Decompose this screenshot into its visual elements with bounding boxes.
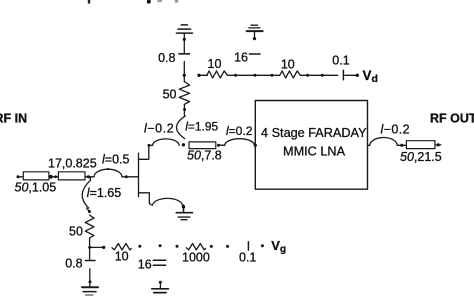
svg-text:1000: 1000 xyxy=(182,250,210,264)
svg-text:17,0.825: 17,0.825 xyxy=(48,156,97,170)
svg-text:50,21.5: 50,21.5 xyxy=(400,150,442,164)
svg-text:50,7.8: 50,7.8 xyxy=(187,149,222,163)
svg-text:l−0.2: l−0.2 xyxy=(144,121,174,135)
svg-text:0.1: 0.1 xyxy=(332,54,349,68)
svg-text:0.8: 0.8 xyxy=(158,51,175,65)
svg-text:0.1: 0.1 xyxy=(239,250,256,264)
svg-text:l=0.5: l=0.5 xyxy=(102,153,130,167)
svg-text:16: 16 xyxy=(138,257,152,271)
svg-text:10: 10 xyxy=(281,58,295,72)
svg-text:l=1.95: l=1.95 xyxy=(185,119,218,133)
svg-text:50: 50 xyxy=(69,225,83,239)
svg-text:50,1.05: 50,1.05 xyxy=(15,181,57,195)
svg-text:16: 16 xyxy=(234,50,248,64)
svg-text:0.8: 0.8 xyxy=(65,257,82,271)
svg-text:4 Stage FARADAY: 4 Stage FARADAY xyxy=(261,126,367,140)
svg-text:RF IN: RF IN xyxy=(0,111,27,125)
svg-text:50: 50 xyxy=(163,88,177,102)
svg-text:l−0.2: l−0.2 xyxy=(381,123,410,137)
svg-text:Vg: Vg xyxy=(271,238,286,255)
svg-text:l=1.65: l=1.65 xyxy=(87,186,121,200)
svg-text:10: 10 xyxy=(208,57,222,71)
svg-text:Vd: Vd xyxy=(363,68,378,85)
svg-text:10: 10 xyxy=(115,250,129,264)
svg-text:MMIC LNA: MMIC LNA xyxy=(283,144,346,158)
svg-text:RF OUT: RF OUT xyxy=(430,112,474,126)
svg-text:l=0.2: l=0.2 xyxy=(226,124,253,138)
